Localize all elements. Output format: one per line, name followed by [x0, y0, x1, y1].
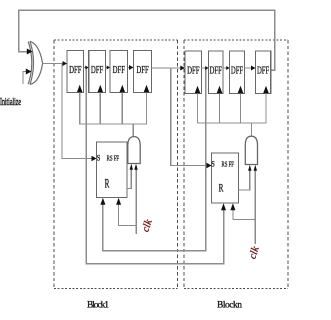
- wire DFF1n to DFF2n: [202, 67, 208, 69]
- wire feedback loop from DFF output to XOR input: [19, 10, 275, 70]
- wire tap T1n from DFF1n output down to long horizontal H1: [103, 68, 206, 251]
- and-gate U2 Block1: [128, 137, 140, 164]
- wire DFF3n clock drop: [240, 94, 242, 124]
- arrow RS FFn bottom left: [221, 203, 226, 210]
- svg-text:Blockn: Blockn: [217, 301, 242, 311]
- block Blockn dashed border: [184, 40, 288, 289]
- svg-text:S: S: [211, 159, 215, 169]
- clock arrow DFF3n: [238, 86, 244, 93]
- wire Initialize input stub: [23, 72, 27, 85]
- clock arrow DFF3: [120, 85, 126, 92]
- arrow into DFF1: [63, 61, 68, 66]
- clock arrow DFF2: [98, 85, 104, 92]
- arrow AND1 left input: [130, 164, 133, 170]
- wire ANDn output to clock rail: [250, 123, 252, 137]
- node S-tap Block1 (XOR output to RS FF S input): [62, 64, 92, 159]
- clock arrow DFF2n: [217, 86, 223, 93]
- wire DFF2n clock drop: [219, 94, 221, 124]
- svg-text:DFF: DFF: [91, 64, 103, 76]
- arrow RS FFn bottom right: [230, 203, 235, 210]
- arrow XOR top input: [27, 49, 33, 55]
- wire XOR output to DFF1: [43, 63, 64, 65]
- flip-flop DFF4 Block1: [134, 51, 152, 93]
- RS flip-flop U4 Block1: [97, 142, 128, 198]
- arrow DFF1n to DFF2n: [205, 66, 208, 70]
- wire DFF2n to DFF3n: [223, 67, 228, 69]
- wire tap to RS FF Blockn S input: [171, 68, 208, 166]
- svg-text:R: R: [219, 183, 224, 195]
- RS flip-flop U5 Blockn: [212, 153, 239, 203]
- arrow DFF1 to DFF2: [85, 66, 88, 70]
- wire RS FF1 Q output to AND1 left input: [127, 166, 131, 189]
- clock arrow DFF4n: [263, 86, 269, 93]
- arrow into RS FFn S input: [207, 163, 212, 168]
- arrow DFF3n to DFF4n: [251, 66, 256, 71]
- flip-flop DFF2 Blockn: [209, 51, 224, 94]
- clock arrow DFF1: [77, 85, 83, 92]
- flip-flop DFF1 Blockn: [185, 51, 202, 94]
- wire clk Block1 to AND1 right input and RS FF1 R input: [135, 166, 137, 234]
- op-amp XOR gate U1 (initialize gate): [28, 41, 42, 84]
- svg-text:DFF: DFF: [69, 64, 81, 76]
- and-gate U3 Blockn: [245, 136, 257, 164]
- arrow ANDn right input: [254, 165, 257, 171]
- arrow into RS FF1 S input: [92, 156, 97, 161]
- svg-text:Initialize: Initialize: [0, 97, 21, 108]
- wire DFF3 to DFF4: [128, 67, 130, 69]
- arrow ANDn left input: [248, 165, 251, 171]
- wire AND1 output to clock rail: [132, 124, 134, 137]
- arrow DFF3 to DFF4: [129, 65, 134, 70]
- arrow RS FF1 bottom right: [116, 198, 121, 205]
- wire DFF2 to DFF3: [106, 67, 109, 69]
- flip-flop DFF1 Block1: [67, 51, 84, 93]
- wire clk branch to RS FF1 bottom: [119, 204, 137, 226]
- block Block1 dashed border: [54, 40, 178, 289]
- wire clk branch to RS FFn bottom: [233, 210, 255, 220]
- svg-text:RS FF: RS FF: [222, 160, 235, 169]
- arrow DFF2 to DFF3: [107, 66, 110, 70]
- svg-text:S: S: [97, 153, 101, 163]
- arrow DFF2n to DFF3n: [226, 66, 229, 70]
- arrow into DFF1n: [180, 66, 185, 71]
- clock arrow DFF1n: [195, 86, 201, 93]
- arrowheads (black): [26, 49, 269, 211]
- wire DFF2 clock drop: [99, 93, 101, 125]
- wire clk Blockn to ANDn right input: [254, 167, 256, 244]
- svg-text:R: R: [105, 177, 110, 191]
- flip-flop DFF3 Blockn: [230, 51, 245, 94]
- wire DFF4 Block1 to DFF1 Blockn: [152, 67, 182, 69]
- wire Block1 clock rail: [80, 93, 147, 125]
- svg-text:Block1: Block1: [87, 301, 109, 311]
- svg-text:DFF: DFF: [210, 65, 222, 77]
- wire DFF1 to DFF2: [84, 67, 88, 69]
- flip-flop DFF4 Blockn: [256, 51, 271, 94]
- flip-flop DFF3 Block1: [110, 51, 128, 93]
- flip-flop DFF2 Block1: [89, 51, 106, 93]
- svg-text:DFF: DFF: [187, 65, 199, 77]
- arrow XOR bottom input: [26, 69, 32, 75]
- svg-text:RS FF: RS FF: [107, 154, 120, 163]
- svg-text:DFF: DFF: [136, 64, 148, 76]
- arrow RS FF1 bottom left: [100, 198, 105, 205]
- arrow AND1 right input: [134, 164, 137, 170]
- wire Blockn clock rail: [198, 94, 267, 124]
- svg-text:DFF: DFF: [113, 64, 125, 76]
- svg-text:DFF: DFF: [231, 65, 243, 77]
- wire tap T1 from DFF1 output down to long horizontal H2: [86, 68, 223, 264]
- svg-text:DFF: DFF: [257, 65, 269, 77]
- wire DFF3 clock drop: [121, 93, 123, 125]
- wire RS FFn Q output to ANDn left input: [239, 167, 250, 190]
- wire DFF3n to DFF4n: [245, 67, 252, 69]
- clock arrow DFF4: [144, 85, 150, 92]
